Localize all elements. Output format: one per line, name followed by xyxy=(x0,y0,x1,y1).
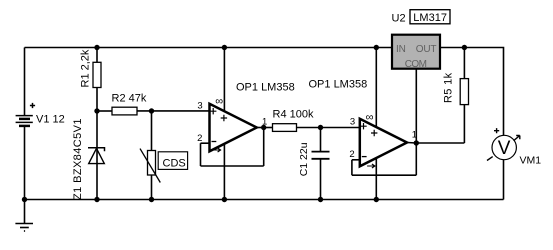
photoresistor CDS body xyxy=(148,151,156,176)
svg-text:VM1: VM1 xyxy=(520,155,542,167)
voltmeter VM1 arrow xyxy=(487,136,520,161)
wire C1 top lead xyxy=(320,128,322,152)
junction node R4/C1 xyxy=(318,125,323,130)
svg-text:IN: IN xyxy=(396,44,406,55)
capacitor C1 bottom plate xyxy=(312,158,330,160)
wire op-amp 2 output to R5 bottom node xyxy=(407,142,464,145)
svg-text:3: 3 xyxy=(350,117,355,128)
op-amp U2b (OP1 LM358) triangle xyxy=(360,119,407,167)
wire R4 left lead xyxy=(264,127,273,129)
wire R1 top lead xyxy=(96,48,98,63)
junction node op-amp 1 output xyxy=(261,125,266,130)
voltmeter VM1 plus sign xyxy=(494,128,499,133)
junction node R1/R2 xyxy=(94,108,99,113)
wire op-amp 1 feedback: riser to pin 2 xyxy=(200,143,202,166)
wire op-amp 2 pin 2 stub xyxy=(352,159,360,161)
resistor R4 xyxy=(273,124,297,132)
wire C1 bottom lead xyxy=(320,160,322,200)
op-amp U1 offset plus mark xyxy=(221,115,227,121)
wire op-amp 1 feedback: output drop xyxy=(263,128,265,167)
svg-text:LM317: LM317 xyxy=(413,12,447,24)
resistor R2 xyxy=(112,107,137,115)
wire op-amp 2 feedback: bottom run xyxy=(352,174,416,176)
svg-text:R2 47k: R2 47k xyxy=(112,93,147,105)
junction node op-amp 2 output/COM/R5 xyxy=(414,140,419,145)
wire op-amp 1 supply xyxy=(223,48,225,200)
junction node top rail at op-amp 2 supply xyxy=(374,45,379,50)
wire R2 left lead xyxy=(97,110,112,112)
wire battery bottom lead xyxy=(24,126,26,200)
wire op-amp 1 feedback: bottom run xyxy=(201,165,264,167)
wire op-amp 1 pin 2 stub xyxy=(201,142,210,144)
wire bottom ground rail xyxy=(25,199,504,201)
battery V1 xyxy=(16,116,33,126)
wire CDS branch to ground rail xyxy=(151,111,153,200)
wire R1 bottom lead through Z1 to ground rail xyxy=(96,88,98,200)
svg-text:U2: U2 xyxy=(392,13,406,25)
label box CDS xyxy=(158,152,187,170)
junction node OUT rail at R5 xyxy=(462,45,467,50)
voltmeter VM1 circle xyxy=(492,135,516,159)
wire R4 right lead to op-amp 2 pin 3 xyxy=(297,127,360,129)
op-amp U1 plus input mark xyxy=(210,108,216,114)
svg-text:OP1 LM358: OP1 LM358 xyxy=(236,82,295,94)
svg-text:3: 3 xyxy=(197,101,202,112)
svg-text:2: 2 xyxy=(349,149,354,160)
battery V1 plus sign xyxy=(30,103,35,108)
wire R2 right lead to op-amp pin 3 xyxy=(137,110,210,112)
resistor R5 xyxy=(460,79,468,105)
op-amp U2b plus input mark xyxy=(360,123,366,129)
wire U2 OUT to voltmeter drop xyxy=(441,48,504,137)
svg-text:R1 2,2k: R1 2,2k xyxy=(80,49,92,87)
wire U2 COM lead down to output node xyxy=(415,69,417,143)
svg-text:OP1 LM358: OP1 LM358 xyxy=(309,79,368,91)
junction node ground rail at C1 xyxy=(318,197,323,202)
svg-text:COM: COM xyxy=(405,59,427,70)
op-amp U2b output arrow mark xyxy=(367,164,375,168)
junction node top rail at R1 xyxy=(94,45,99,50)
op-amp U1 output arrow mark xyxy=(213,148,221,152)
label box LM317 xyxy=(410,10,450,24)
op-amp U1 (OP1 LM358) triangle xyxy=(210,104,257,152)
wire voltmeter bottom lead xyxy=(503,160,505,200)
svg-text:OUT: OUT xyxy=(416,44,437,55)
zener diode Z1 xyxy=(88,148,105,164)
junction node R2/CDS xyxy=(149,108,154,113)
junction node ground rail at battery xyxy=(22,197,27,202)
svg-text:∞: ∞ xyxy=(215,96,223,108)
wire R5 top lead xyxy=(463,48,465,79)
svg-text:Z1 BZX84C5V1: Z1 BZX84C5V1 xyxy=(72,118,84,200)
wire op-amp 1 output stub xyxy=(257,127,264,129)
junction node ground rail at CDS xyxy=(149,197,154,202)
junction node top rail at op-amp 1 supply xyxy=(222,45,227,50)
junction node ground rail at Z1 xyxy=(94,197,99,202)
svg-text:∞: ∞ xyxy=(366,111,374,123)
svg-text:2: 2 xyxy=(197,133,202,144)
ground xyxy=(15,200,33,232)
op-amp U1 minus input mark xyxy=(212,141,217,143)
svg-text:V: V xyxy=(498,138,511,159)
wire op-amp 2 supply xyxy=(375,48,377,200)
svg-text:R5 1k: R5 1k xyxy=(442,72,454,103)
svg-text:V1 12: V1 12 xyxy=(36,114,65,126)
regulator U2 LM317 body xyxy=(392,35,440,69)
wire op-amp 2 feedback: output drop xyxy=(415,143,417,175)
photoresistor CDS diagonal stroke xyxy=(140,149,160,183)
capacitor C1 top plate xyxy=(312,151,330,153)
wire top supply rail xyxy=(25,47,392,49)
svg-text:CDS: CDS xyxy=(163,158,186,170)
svg-text:C1 22u: C1 22u xyxy=(298,142,310,176)
wire R5 bottom lead xyxy=(463,105,465,143)
wire battery top lead xyxy=(24,48,26,116)
junction node ground rail at op-amp 1 supply xyxy=(222,197,227,202)
junction node ground rail at op-amp 2 supply xyxy=(374,197,379,202)
wire op-amp 2 feedback: riser to pin 2 xyxy=(351,160,353,175)
op-amp U2b offset plus mark xyxy=(371,130,377,136)
resistor R1 xyxy=(93,62,101,87)
svg-text:R4 100k: R4 100k xyxy=(273,109,314,121)
op-amp U2b minus input mark xyxy=(362,156,367,158)
